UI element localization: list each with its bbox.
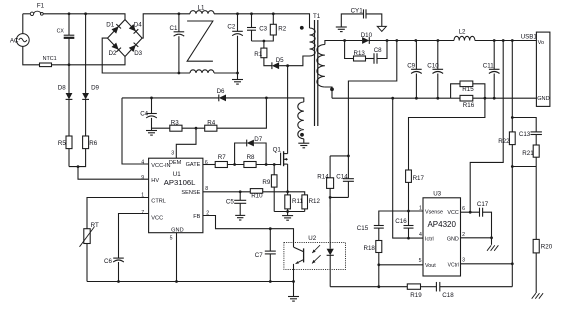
svg-text:C13: C13 (519, 131, 531, 138)
svg-text:GATE: GATE (186, 162, 201, 168)
svg-text:1: 1 (419, 206, 422, 212)
svg-text:C16: C16 (395, 218, 407, 225)
svg-text:VCtrl: VCtrl (448, 262, 459, 268)
svg-text:R19: R19 (410, 292, 422, 299)
svg-text:4: 4 (141, 159, 144, 165)
svg-text:NTC1: NTC1 (43, 56, 57, 62)
svg-text:VCC: VCC (447, 210, 458, 216)
svg-text:4: 4 (419, 232, 422, 238)
svg-text:6: 6 (205, 160, 208, 166)
svg-text:R9: R9 (262, 179, 270, 186)
svg-text:R4: R4 (207, 120, 215, 127)
svg-text:C3: C3 (259, 26, 267, 33)
svg-text:CY1: CY1 (351, 8, 364, 15)
svg-text:R13: R13 (354, 50, 366, 57)
svg-text:Q1: Q1 (273, 147, 282, 154)
svg-text:R12: R12 (309, 198, 321, 205)
svg-text:L1: L1 (198, 4, 205, 11)
svg-text:D4: D4 (134, 22, 142, 29)
svg-text:DEM: DEM (169, 160, 182, 166)
svg-text:FB: FB (193, 214, 200, 220)
svg-text:GND: GND (447, 236, 459, 242)
svg-text:AC: AC (10, 37, 19, 44)
svg-text:9: 9 (141, 175, 144, 181)
svg-text:R3: R3 (171, 120, 179, 127)
svg-text:3: 3 (171, 151, 174, 157)
svg-text:R22: R22 (498, 138, 510, 145)
svg-text:C1: C1 (170, 25, 178, 32)
svg-text:D6: D6 (217, 88, 225, 95)
svg-text:AP4320: AP4320 (427, 220, 456, 229)
svg-text:R20: R20 (541, 243, 553, 250)
svg-text:C18: C18 (442, 292, 454, 299)
svg-text:R8: R8 (247, 154, 255, 161)
svg-text:D2: D2 (109, 50, 117, 57)
svg-text:C14: C14 (336, 174, 348, 181)
svg-text:F1: F1 (37, 3, 45, 10)
svg-text:2: 2 (206, 210, 209, 216)
svg-text:C5: C5 (226, 198, 234, 205)
svg-text:R15: R15 (462, 86, 474, 93)
svg-text:VCC-IN: VCC-IN (151, 163, 170, 169)
svg-text:C4: C4 (140, 111, 148, 118)
svg-text:GND: GND (171, 227, 183, 233)
svg-text:R21: R21 (522, 150, 534, 157)
svg-text:RT: RT (91, 222, 99, 229)
svg-text:Vsense: Vsense (425, 209, 443, 215)
svg-text:8: 8 (205, 186, 208, 192)
svg-text:HV: HV (151, 178, 159, 184)
svg-text:5: 5 (170, 236, 173, 242)
svg-text:R5: R5 (58, 140, 66, 147)
svg-text:C11: C11 (483, 63, 494, 70)
svg-text:2: 2 (462, 232, 465, 238)
svg-text:C7: C7 (255, 252, 263, 259)
svg-text:D5: D5 (276, 57, 284, 64)
svg-text:C17: C17 (477, 201, 489, 208)
svg-text:Ictrl: Ictrl (425, 236, 434, 242)
svg-text:Vo: Vo (538, 40, 545, 46)
svg-text:7: 7 (141, 210, 144, 216)
svg-text:R1: R1 (254, 51, 262, 58)
svg-text:D8: D8 (58, 84, 66, 91)
svg-text:U2: U2 (308, 235, 316, 242)
svg-text:T1: T1 (313, 13, 321, 20)
svg-text:C6: C6 (104, 258, 112, 265)
svg-text:6: 6 (462, 206, 465, 212)
svg-text:C15: C15 (357, 225, 369, 232)
svg-text:R2: R2 (278, 26, 286, 33)
svg-text:VCC: VCC (151, 216, 163, 222)
svg-text:R16: R16 (463, 102, 475, 109)
svg-text:3: 3 (462, 258, 465, 264)
svg-text:Vout: Vout (425, 263, 436, 269)
svg-text:C2: C2 (227, 23, 235, 30)
svg-text:5: 5 (419, 258, 422, 264)
svg-text:R11: R11 (292, 198, 303, 205)
svg-text:1: 1 (141, 193, 144, 199)
svg-text:C8: C8 (374, 47, 382, 54)
svg-text:D10: D10 (361, 32, 373, 39)
svg-text:C9: C9 (407, 63, 415, 70)
svg-text:L2: L2 (459, 29, 466, 36)
svg-text:R6: R6 (89, 140, 97, 147)
svg-text:SENSE: SENSE (181, 190, 200, 196)
svg-text:D1: D1 (106, 22, 114, 29)
svg-text:D9: D9 (91, 84, 99, 91)
svg-text:U3: U3 (433, 190, 441, 197)
svg-text:D7: D7 (254, 136, 262, 143)
svg-text:GND: GND (537, 96, 549, 102)
svg-text:AP3106L: AP3106L (164, 178, 196, 187)
svg-text:R17: R17 (413, 175, 425, 182)
svg-text:R14: R14 (317, 174, 329, 181)
svg-text:R7: R7 (218, 154, 226, 161)
svg-text:USB1: USB1 (521, 33, 538, 40)
svg-text:D3: D3 (134, 50, 142, 57)
svg-text:CX: CX (57, 29, 65, 35)
svg-text:R18: R18 (364, 245, 376, 252)
svg-text:CTRL: CTRL (151, 198, 166, 204)
svg-text:R10: R10 (251, 193, 263, 200)
svg-text:C10: C10 (427, 63, 439, 70)
